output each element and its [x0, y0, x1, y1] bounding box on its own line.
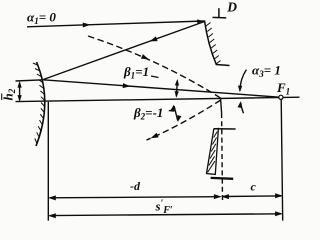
arrowhead on ray S2: [149, 36, 158, 43]
focus F1 point: [279, 95, 283, 99]
ray S2 from mirror M1 down to mirror M2: [43, 22, 204, 80]
mirror M2 vertex extension line: [47, 102, 49, 221]
arrowhead on dashed ray S8: [150, 133, 159, 141]
hatching of wedge: [208, 132, 218, 173]
svg-text:c: c: [251, 180, 257, 194]
ray S4 from mirror M2 to focus F1: [43, 80, 281, 98]
dimension line s'F': [50, 214, 282, 216]
dimension line c: [223, 195, 282, 198]
svg-text:D: D: [226, 0, 237, 15]
mirror M2 (left concave mirror): [36, 62, 45, 146]
beta2 angle double arrow: [174, 106, 178, 121]
optical axis: [16, 97, 300, 101]
arrowhead on ray S1: [83, 22, 91, 27]
beta1 angle double arrow: [175, 81, 178, 97]
aperture stop D mark: [213, 16, 227, 19]
ray S3 stub left of mirror M2 at height h2: [16, 80, 44, 81]
lens wedge element (hatched): [207, 129, 219, 175]
dashed virtual ray S8 from junction J down-left: [147, 100, 221, 140]
mirror M1 (upper mirror): [205, 21, 230, 66]
dimension line -d: [50, 197, 221, 198]
label h2 (rotated): [1, 88, 18, 100]
hatching of mirror M2: [33, 63, 45, 144]
junction J vertical line (solid part): [221, 99, 222, 113]
beta2 leader dash: [169, 110, 174, 112]
h2 dimension double arrow: [19, 83, 21, 101]
ray S1 incoming top (alpha1=0): [27, 21, 205, 27]
dashed virtual ray D1 (upper, to junction J): [88, 36, 221, 98]
alpha3 angle arc lower part: [241, 103, 244, 114]
wedge top tick: [214, 128, 236, 130]
secondary plane dashed centre line: [221, 113, 224, 201]
beta1 leader dash: [151, 76, 159, 78]
hatching of mirror M1: [206, 23, 221, 65]
alpha3 angle arc upper part: [240, 70, 247, 91]
svg-text:α3= 1: α3= 1: [252, 63, 281, 80]
wedge bottom tick: [211, 177, 234, 180]
focus F1 vertical extension line: [281, 99, 283, 220]
svg-text:β1=1: β1=1: [123, 64, 149, 81]
svg-text:-d: -d: [130, 179, 141, 193]
small arrowhead at mirror M1 end of ray S1: [197, 19, 203, 23]
arrowhead on dashed ray D1: [141, 54, 150, 62]
svg-text:α1= 0: α1= 0: [27, 10, 56, 27]
svg-text:β2=-1: β2=-1: [133, 105, 163, 122]
arrowhead on ray S4: [123, 83, 131, 89]
